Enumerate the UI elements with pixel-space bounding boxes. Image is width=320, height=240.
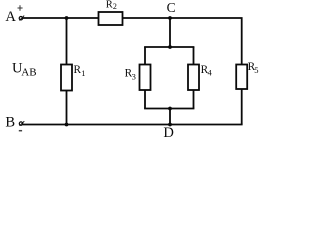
junction dot bridge top — [168, 45, 172, 49]
junction node D — [168, 123, 172, 127]
label minus polarity — [19, 130, 22, 132]
wire: node C stem — [169, 18, 171, 47]
svg-text:5: 5 — [254, 65, 258, 75]
junction node C — [168, 16, 172, 20]
resistor R5 body — [236, 65, 247, 90]
wire: bottom segment B to bottom-right corner — [23, 124, 243, 126]
junction dot bridge bottom — [168, 107, 172, 111]
terminal B — [19, 121, 24, 126]
wire: R4 branch lower stub — [193, 90, 195, 109]
resistor R1 body — [61, 65, 72, 91]
svg-text:R: R — [106, 0, 113, 11]
resistor R4 body — [188, 65, 199, 91]
wire: top segment A to R2 — [23, 17, 100, 19]
svg-text:2: 2 — [113, 2, 117, 11]
svg-text:AB: AB — [21, 67, 36, 79]
wire: R1 branch upper — [66, 18, 68, 65]
wire: R4 branch upper stub — [193, 47, 195, 65]
label R1 — [74, 64, 86, 78]
label voltage U_AB — [12, 60, 37, 78]
svg-text:B: B — [5, 115, 15, 131]
wire: bridge bottom bar — [144, 108, 194, 110]
wire: R3 branch upper stub — [144, 47, 146, 65]
svg-text:1: 1 — [81, 68, 85, 78]
wire: R3 branch lower stub — [144, 90, 146, 109]
wire: right segment R5 to bottom-right corner — [241, 89, 243, 125]
junction dot at R1 bottom — [65, 123, 69, 127]
wire: top segment R2 to top-right corner, down to R5 — [122, 18, 242, 65]
wire: node D stem — [169, 109, 171, 125]
wire: R1 branch lower — [66, 91, 68, 125]
label R2 — [106, 0, 117, 11]
label R5 — [248, 61, 259, 75]
terminal A — [19, 16, 24, 21]
label R3 — [125, 67, 136, 81]
label R4 — [201, 64, 213, 78]
svg-text:3: 3 — [132, 71, 136, 81]
svg-text:A: A — [5, 9, 16, 25]
svg-text:D: D — [163, 125, 174, 139]
resistor R2 body — [99, 12, 123, 25]
label plus polarity — [18, 5, 23, 10]
svg-text:4: 4 — [208, 68, 213, 78]
svg-text:C: C — [167, 0, 176, 15]
junction dot at R1 top — [65, 16, 69, 20]
resistor R3 body — [140, 65, 151, 91]
wire: bridge top bar — [144, 46, 194, 48]
